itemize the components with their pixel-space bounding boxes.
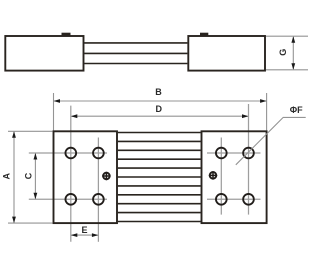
svg-text:A: A <box>2 172 12 179</box>
svg-text:G: G <box>278 49 288 56</box>
svg-text:E: E <box>81 225 87 235</box>
svg-text:D: D <box>156 104 163 114</box>
svg-text:B: B <box>155 87 162 97</box>
svg-text:C: C <box>23 172 33 179</box>
svg-text:ΦF: ΦF <box>290 105 303 115</box>
